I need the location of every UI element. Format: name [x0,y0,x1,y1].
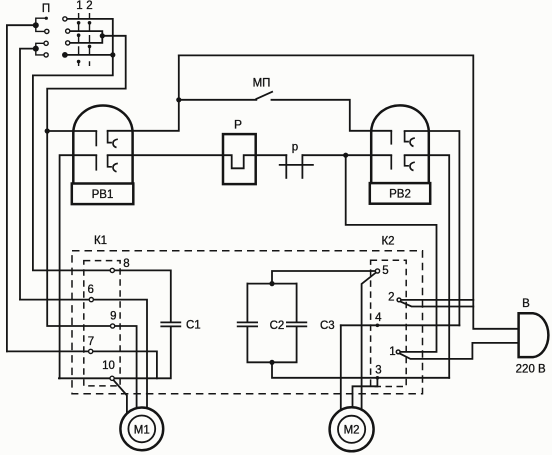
svg-text:8: 8 [123,258,129,270]
wire pole1 feed left vertical [7,25,36,351]
node junction dot [45,128,50,133]
node pole1 upper tip [45,17,48,20]
svg-text:4: 4 [375,312,382,324]
wire contact5 straight to C2C3 top [272,271,378,284]
relay PB1 tube body [72,105,134,204]
wire row7 [7,351,157,378]
node pole2 upper contact [44,41,48,45]
node pole2 [33,46,39,52]
relay PB2 top contact plates [391,131,415,171]
wire PB2 top right lead to row4 [405,131,460,325]
wire row3 [272,362,449,378]
svg-text:МП: МП [253,78,271,90]
wire contact2 straight to bell top [401,299,473,301]
svg-text:7: 7 [88,336,94,348]
switch block 1-2 dashed bars [79,13,90,66]
capacitor C3 [286,321,307,323]
svg-text:1: 1 [76,0,82,12]
K1 terminal 8 [110,268,114,272]
wire row4 drop to M2 [340,325,342,412]
wire PB1 top left lead [47,130,96,132]
wire p to PB2 bottom left lead [302,154,391,156]
wire C3 branch top [296,284,298,322]
svg-text:Р: Р [234,118,242,132]
node dot on p line [343,153,348,158]
switch P poles [36,18,45,55]
relay PB2 bottom contact plates [390,155,392,169]
node block row4 filled [62,52,68,58]
wire row2-row3 jumper [68,31,103,43]
bell B [519,313,549,357]
svg-text:220 В: 220 В [516,364,546,376]
svg-text:9: 9 [110,311,116,323]
svg-text:В: В [522,298,530,310]
svg-text:1: 1 [389,346,395,358]
relay PB1 top contact plates [96,131,118,172]
K outer dashed box [72,251,423,394]
relay PB1 bottom contact plates [95,155,97,170]
svg-text:М2: М2 [344,425,360,437]
capacitor C1 [160,321,181,323]
motor M1 [120,408,163,451]
wire MP line right to PB2 [272,100,392,131]
K2 terminal 4 dot [376,324,380,328]
K2 terminal 2 [397,298,401,302]
node junction dot row4 [110,52,115,57]
svg-text:М1: М1 [134,424,150,436]
node pole1 [33,22,39,28]
svg-text:5: 5 [382,265,388,277]
node block row1 circle [63,17,67,21]
K1 terminal 7 [89,349,93,353]
contact p crossbar [280,164,313,166]
svg-text:2: 2 [388,291,394,303]
wire MP line left [179,99,256,101]
svg-text:К1: К1 [94,235,107,247]
K1 inner dashed box [84,261,120,386]
relay PB2 label box [370,183,430,204]
wire C2C3 top [247,283,296,285]
wire branch to row9 and PB1 [47,36,136,409]
contact p left bar [285,155,287,178]
K2 inner dashed box [371,260,407,386]
wire contact5 arm drop to M2 [362,273,376,412]
svg-text:С3: С3 [320,320,335,332]
K2 terminal 1 [396,350,400,354]
contact1 arm to bell bottom [400,343,519,359]
node dot C2C3 top [269,281,274,286]
relay PB2 tube body [370,105,430,203]
wire dot down right to contact1 [346,155,437,352]
motor M2 [330,407,374,451]
svg-text:2: 2 [86,0,92,12]
wire PB1 top right lead [108,55,179,130]
relay P coil box [223,134,256,184]
wire row4 [341,324,460,326]
svg-text:3: 3 [375,365,381,377]
wire top rail [179,55,519,328]
wire row4 [65,54,113,56]
wire PB1 bottom left lead down [60,155,97,378]
contact MP arm [256,92,272,99]
bar 1 dots [77,21,81,25]
wire C2 branch [246,284,248,322]
node block row3 circle [66,41,70,45]
contact2 arm [400,302,473,307]
relay PB1 label box [72,184,134,205]
wire row1 to row8 via x112.8 and x32.9 [33,19,171,322]
node pole1 lower contact [45,29,49,33]
node block row2 circle [66,29,70,33]
K1 terminal 10 [110,376,114,380]
node MP junction dot [176,97,181,102]
node pole2 lower contact [44,53,48,57]
svg-text:С1: С1 [186,319,201,331]
svg-text:П: П [42,3,50,15]
wire row6 to M1 [20,300,147,410]
node junction dot row2 branch [100,33,105,38]
pole 1 arms [36,18,45,25]
svg-text:К2: К2 [381,235,394,247]
svg-text:6: 6 [87,284,93,296]
svg-text:РВ2: РВ2 [389,189,411,201]
pole 2 arms [36,43,44,48]
wire PB2 bottom right lead to row3 [405,155,450,378]
K1 terminal 9 [111,324,115,328]
contact p right bar [301,155,303,178]
wire pole2 feed left vertical [20,49,36,300]
svg-text:10: 10 [102,360,115,372]
wire row10 C1 bottom [59,327,171,378]
wire PB1 bottom right lead to relay P [108,155,287,168]
svg-text:РВ1: РВ1 [92,189,114,201]
wire contact10 arm to M1 [114,380,127,412]
K2 terminal 3 dot [376,376,380,380]
svg-text:р: р [292,142,298,154]
wire terminal3 jog to M2 [353,378,378,412]
bar 2 dots [88,21,92,25]
K2 terminal 5 [375,269,379,273]
node dot C2C3 bottom [269,360,274,365]
capacitor C2 [237,321,258,323]
K1 terminal 6 [89,298,93,302]
svg-text:C2: C2 [270,320,285,332]
